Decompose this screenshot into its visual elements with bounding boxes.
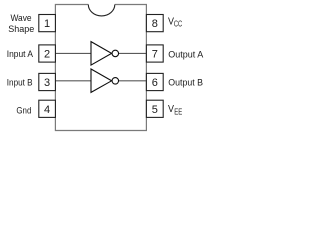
- svg-text:EE: EE: [174, 106, 182, 116]
- svg-text:Output B: Output B: [168, 77, 203, 88]
- wire pin2 to inverter A input: [55, 52, 91, 54]
- pin 6 box: [146, 73, 163, 90]
- svg-text:Gnd: Gnd: [16, 105, 31, 116]
- svg-text:Shape: Shape: [8, 24, 34, 35]
- svg-text:7: 7: [152, 49, 158, 61]
- inverter A (pins 2-7) triangle: [91, 42, 112, 66]
- svg-text:1: 1: [44, 18, 50, 30]
- svg-text:6: 6: [152, 77, 158, 89]
- pin 7 box: [146, 45, 163, 62]
- pin 5 box: [146, 100, 163, 117]
- inverter A bubble: [112, 50, 119, 57]
- svg-text:8: 8: [152, 18, 158, 30]
- pin 2 box: [39, 45, 56, 62]
- wire inverter B output to pin6: [119, 80, 147, 82]
- svg-text:Input B: Input B: [7, 77, 33, 88]
- svg-text:5: 5: [152, 104, 158, 116]
- svg-text:Output A: Output A: [168, 49, 204, 60]
- pin 1 box: [39, 15, 56, 32]
- inverter B (pins 3-6) triangle: [91, 69, 112, 92]
- pin 4 box: [39, 100, 56, 117]
- svg-text:4: 4: [44, 104, 50, 116]
- svg-text:3: 3: [44, 77, 50, 89]
- svg-text:CC: CC: [174, 18, 182, 28]
- wire pin3 to inverter B input: [55, 80, 91, 82]
- svg-text:Input A: Input A: [7, 49, 34, 60]
- svg-text:V: V: [168, 104, 174, 115]
- pin 8 box: [146, 15, 163, 32]
- notch (pin-1 index): [88, 5, 115, 16]
- IC body U1 outline: [55, 5, 146, 131]
- inverter B bubble: [112, 78, 119, 85]
- wire inverter A output to pin7: [119, 52, 147, 54]
- svg-text:2: 2: [44, 49, 50, 61]
- svg-text:Wave: Wave: [10, 13, 31, 24]
- pin 3 box: [39, 73, 56, 90]
